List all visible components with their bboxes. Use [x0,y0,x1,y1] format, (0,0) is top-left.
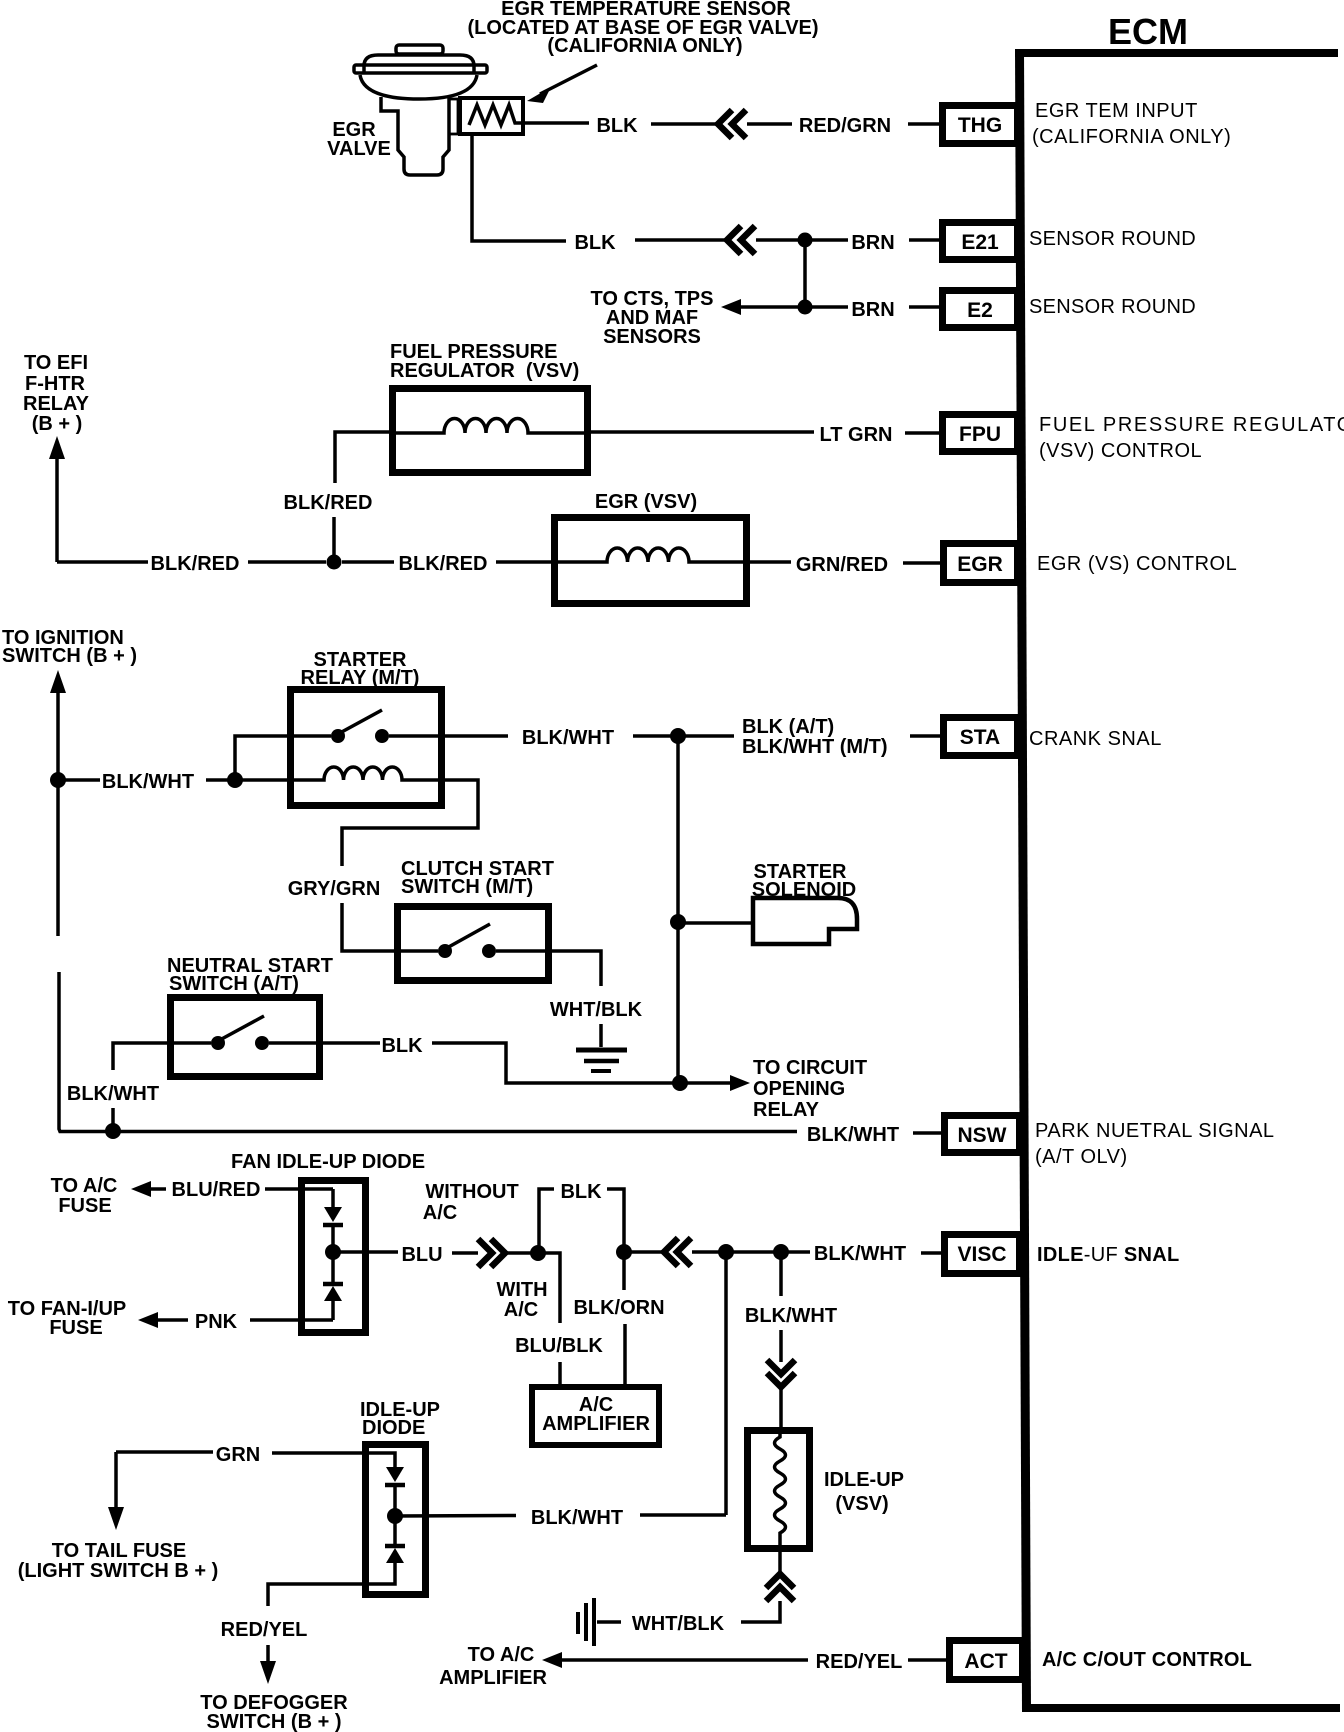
wire GRY/GRN down to clutch switch [342,903,397,951]
svg-text:BRN: BRN [851,232,894,254]
svg-text:FUSE: FUSE [58,1195,111,1217]
clutch start switch box [398,907,549,981]
wire BLK/WHT down to main run [111,1108,115,1128]
pin NSW [945,1116,1020,1153]
junction node STA [670,728,686,744]
svg-text:IDLE-UF SNAL: IDLE-UF SNAL [1037,1244,1180,1266]
starter solenoid body [753,898,857,944]
pin E2 [943,291,1018,328]
EGR valve body [381,97,449,175]
wire sensor to BLK label (row 1) [523,121,589,125]
wire BLK to connector (row 2) [635,238,727,242]
wire BLK/WHT to relay junction [206,778,228,782]
svg-text:BLK: BLK [596,115,638,137]
starter relay box [291,690,442,806]
wire GRN elbow [116,1450,213,1454]
svg-text:BLU: BLU [401,1244,442,1266]
svg-text:TO TAIL FUSE: TO TAIL FUSE [52,1540,186,1562]
svg-text:BLK/WHT: BLK/WHT [522,727,614,749]
bracket wire BLK right [607,1189,624,1246]
wire BLK jog down to circuit opening relay run [432,1043,675,1083]
svg-text:CRANK SNAL: CRANK SNAL [1029,728,1162,750]
svg-text:BLK (A/T): BLK (A/T) [742,716,834,738]
svg-text:(B + ): (B + ) [32,413,83,435]
svg-text:BLK/RED: BLK/RED [399,553,488,575]
svg-text:WITH: WITH [496,1279,547,1301]
wire chevrons into idle-up VSV [779,1388,783,1430]
svg-text:IDLE-UP: IDLE-UP [824,1469,904,1491]
wire junction down to BLU/BLK [538,1253,560,1323]
svg-text:WHT/BLK: WHT/BLK [550,999,643,1021]
junction node idle-up feed [718,1244,734,1260]
svg-text:TO EFI: TO EFI [24,352,88,374]
svg-text:RED/YEL: RED/YEL [221,1619,308,1641]
svg-text:BLK/RED: BLK/RED [284,492,373,514]
wire FPR right lead to LT GRN [591,430,814,434]
svg-text:BLK: BLK [574,232,616,254]
wire junction to left chevrons (VISC run) [624,1250,664,1254]
junction node idle-up VSV feed [773,1244,789,1260]
pin E21 [943,223,1018,260]
idle-up diode D1 (down) [386,1467,404,1482]
idle-up VSV coil squiggle [775,1431,786,1552]
wire BLK to connector (row 1) [651,122,718,126]
connector chevrons (with A/C, pointing right) [478,1239,505,1267]
wire from sensor bottom down to row 2 [472,134,566,241]
arrow to A/C fuse [131,1181,151,1197]
wire chevrons to junction [505,1251,532,1255]
svg-text:SWITCH (B + ): SWITCH (B + ) [207,1711,342,1732]
svg-text:F-HTR: F-HTR [25,373,86,395]
EGR valve flange [354,65,487,73]
svg-text:FAN IDLE-UP DIODE: FAN IDLE-UP DIODE [231,1151,425,1173]
svg-text:STA: STA [960,726,1000,749]
fan diode mid lead [331,1225,335,1283]
pointer arrow to EGR temperature sensor [540,65,597,94]
ground bars (VSV) [576,1612,580,1634]
wire BLU/RED into diode box [265,1187,333,1191]
wire to pin E21 [909,238,939,242]
EGR valve bowl [360,75,477,99]
connector chevrons (row 1) [718,110,746,138]
svg-text:BLK/WHT: BLK/WHT [102,771,194,793]
starter relay switch contacts [291,734,331,738]
clutch start switch contacts [397,949,438,953]
clutch start switch blade [445,924,490,949]
connector chevrons (row 2) [727,226,755,254]
arrow down to defogger switch [266,1645,270,1668]
wire to pin NSW [913,1131,941,1135]
junction node idle-up diode [387,1508,403,1524]
EGR valve dome [364,55,474,74]
bracket wire BLK left [539,1189,554,1247]
wire BLK/WHT down to chevrons [779,1330,783,1362]
wire to pin FPU [905,431,939,435]
svg-text:THG: THG [958,114,1002,137]
svg-text:A/C C/OUT CONTROL: A/C C/OUT CONTROL [1042,1649,1252,1671]
wire BLK/WHT to riser [640,1513,726,1517]
svg-text:SENSORS: SENSORS [603,326,701,348]
wire BLU to right chevrons [452,1251,478,1255]
svg-text:FUSE: FUSE [49,1317,102,1339]
svg-text:BLU/BLK: BLU/BLK [515,1335,603,1357]
fuel pressure regulator (VSV) box [393,389,588,473]
connector chevrons (VISC run, pointing left) [664,1238,691,1266]
wire fan diode out to PNK [250,1318,333,1322]
svg-text:BLU/RED: BLU/RED [172,1179,261,1201]
svg-text:RELAY: RELAY [23,393,90,415]
svg-text:BLK/ORN: BLK/ORN [573,1297,664,1319]
wire relay switch out to BLK/WHT [445,734,508,738]
arrow up to EFI F-HTR relay [49,436,65,459]
arrow to circuit opening relay [680,1081,732,1085]
svg-text:RED/YEL: RED/YEL [816,1651,903,1673]
pin STA [944,718,1018,756]
fuel pressure regulator coil [392,419,588,434]
wire label to ground symbol [599,1024,603,1047]
svg-text:BLK/WHT: BLK/WHT [745,1305,837,1327]
wire chevrons to junction [692,1250,721,1254]
EGR temperature sensor body [460,98,523,134]
wire to pin E2 [909,305,939,309]
wire BLK/RED to junction [248,560,326,564]
svg-text:TO CIRCUIT: TO CIRCUIT [753,1057,867,1079]
neutral start switch box [171,998,320,1077]
wire junction down [622,1252,626,1290]
junction node relay feed [227,772,243,788]
svg-text:E21: E21 [961,231,999,254]
left BLK/WHT vertical (lower) and NSW run [59,972,797,1132]
wire down to idle-up diode run [724,1252,728,1515]
starter relay coil [291,767,441,780]
wire junction to BRN (row 2) [805,238,848,242]
svg-text:BLK/WHT (M/T): BLK/WHT (M/T) [742,736,888,758]
fan diode D1 (down) [324,1207,342,1222]
wire junction to BLK/WHT label [58,778,100,782]
junction node BLK/RED [327,555,342,570]
svg-text:BLK/RED: BLK/RED [151,553,240,575]
pin ACT [950,1641,1023,1680]
wire to VSV junction [726,1250,776,1254]
svg-text:PARK NUETRAL SIGNAL: PARK NUETRAL SIGNAL [1035,1120,1275,1142]
pin VISC [945,1235,1020,1274]
wire BLK/RED label down to junction [332,517,336,562]
connector chevrons (up) [766,1574,794,1601]
wire to CTS/TPS/MAF arrow [739,305,805,309]
EGR (VSV) coil [554,548,744,562]
svg-text:(CALIFORNIA ONLY): (CALIFORNIA ONLY) [1032,126,1231,148]
idle-up diode box [366,1445,426,1595]
idle-up diode bottom lead out [268,1562,395,1606]
svg-text:(CALIFORNIA ONLY): (CALIFORNIA ONLY) [547,35,742,57]
pin THG [943,106,1018,144]
wire BLK/RED to EGR VSV box [496,560,554,564]
svg-text:SENSOR ROUND: SENSOR ROUND [1029,296,1196,318]
svg-text:EGR (VS) CONTROL: EGR (VS) CONTROL [1037,553,1237,575]
junction node row3 [798,300,813,315]
arrow to A/C amplifier (RED/YEL run) [542,1652,562,1668]
junction node BLK/ORN [616,1244,632,1260]
svg-text:TO A/C: TO A/C [51,1175,118,1197]
junction node fan diode [325,1244,341,1260]
wire FPR left lead [335,432,389,483]
ECM top edge [1015,49,1338,57]
svg-text:WHT/BLK: WHT/BLK [632,1613,725,1635]
junction node solenoid [670,914,686,930]
wire to pin STA [910,734,940,738]
wire junction into relay coil [235,778,291,782]
svg-text:BLK/WHT: BLK/WHT [531,1507,623,1529]
arrow down to tail fuse [114,1452,118,1510]
arrow to fan idle-up fuse [154,1318,188,1322]
wire fan diode to BLU [333,1250,398,1254]
wire BLU/BLK into A/C amplifier [558,1362,562,1387]
svg-text:(A/T OLV): (A/T OLV) [1035,1146,1128,1168]
svg-text:(LIGHT SWITCH B + ): (LIGHT SWITCH B + ) [18,1560,219,1582]
svg-text:WITHOUT: WITHOUT [425,1181,518,1203]
svg-text:SWITCH (B + ): SWITCH (B + ) [2,645,137,667]
EGR (VSV) box [555,518,747,604]
pin EGR [944,544,1018,583]
wire neutral switch out to BLK [323,1041,380,1045]
neutral start switch blade [218,1016,264,1041]
ground tick [597,1620,621,1624]
wire connector to RED/GRN (row 1) [747,122,792,126]
wire diode junction out right [395,1514,516,1518]
svg-text:NSW: NSW [958,1124,1007,1147]
svg-text:BLK/WHT: BLK/WHT [814,1243,906,1265]
svg-text:OPENING: OPENING [753,1078,845,1100]
wire chevrons down to WHT/BLK elbow [741,1601,780,1622]
starter relay switch blade [338,710,382,734]
junction node BLU [530,1245,546,1261]
fan diode internal top lead [331,1189,335,1211]
svg-text:LT GRN: LT GRN [820,424,893,446]
EGR temperature sensor thermistor zigzag [469,105,523,125]
junction node circuit opening [672,1075,688,1091]
wire relay coil out, down and left [342,780,478,866]
idle-up diode mid lead [393,1485,397,1545]
wire to pin THG [908,122,939,126]
A/C amplifier box [532,1387,659,1445]
connector chevrons (down) [767,1360,795,1387]
wire to pin VISC [921,1251,943,1255]
svg-text:VISC: VISC [957,1243,1006,1266]
svg-text:BLK/WHT: BLK/WHT [67,1083,159,1105]
svg-text:RELAY: RELAY [753,1099,820,1121]
svg-text:GRY/GRN: GRY/GRN [288,878,381,900]
ground symbol (clutch) [576,1048,627,1053]
junction node on NSW run [105,1123,121,1139]
svg-text:SENSOR ROUND: SENSOR ROUND [1029,228,1196,250]
wire to pin EGR [903,561,940,565]
svg-text:SWITCH (A/T): SWITCH (A/T) [169,973,299,995]
fan diode bottom lead [331,1301,335,1320]
ECM left edge (main vertical bus) [1015,49,1031,1712]
svg-text:VALVE: VALVE [327,138,391,160]
wire row to EGR VSV: left segment [57,560,148,564]
svg-text:FUEL PRESSURE REGULATOR: FUEL PRESSURE REGULATOR [1039,414,1344,436]
fan idle-up diode box [302,1181,366,1333]
left BLK/WHT vertical (upper) [56,689,60,936]
svg-text:DIODE: DIODE [362,1417,425,1439]
svg-text:REGULATOR (VSV): REGULATOR (VSV) [390,360,579,382]
svg-text:BLK/WHT: BLK/WHT [807,1124,899,1146]
svg-text:FPU: FPU [959,423,1001,446]
junction node row2 [798,233,813,248]
svg-text:TO A/C: TO A/C [468,1644,535,1666]
svg-text:BLK: BLK [560,1181,602,1203]
vertical bus from STA junction down [676,736,680,1083]
wire BLK/ORN into A/C amplifier [623,1324,627,1387]
wire VSV bottom to chevrons [778,1552,782,1572]
wire junction to BRN (row 3) [805,305,848,309]
idle-up diode D2 (up) [385,1544,405,1549]
EGR valve cap [396,45,443,54]
svg-text:AMPLIFIER: AMPLIFIER [439,1667,547,1689]
wire to pin ACT [908,1658,946,1662]
svg-text:EGR: EGR [957,553,1003,576]
svg-text:SWITCH (M/T): SWITCH (M/T) [401,876,533,898]
wire connector to junction (row 2) [756,238,805,242]
EGR temperature sensor mount strip [449,99,458,134]
neutral start switch contacts [170,1041,211,1045]
svg-text:A/C: A/C [504,1299,538,1321]
svg-text:PNK: PNK [195,1311,238,1333]
wire GRN into idle-up diode [272,1453,395,1471]
fan diode D2 (up) [323,1282,343,1287]
svg-text:ECM: ECM [1108,11,1188,52]
pin FPU [943,415,1018,452]
branch up to relay switch row [235,736,291,780]
svg-text:(VSV): (VSV) [835,1493,888,1515]
junction node at ignition feed [50,772,66,788]
svg-text:(VSV) CONTROL: (VSV) CONTROL [1039,440,1202,462]
wire junction to BLK/RED (right) [342,560,394,564]
arrow up to ignition switch [50,670,66,693]
svg-text:A/C: A/C [423,1202,457,1224]
neutral start switch left lead [113,1043,167,1070]
wire junction to starter solenoid [678,921,753,925]
svg-text:BLK: BLK [381,1035,423,1057]
wire clutch switch to ground [552,951,601,986]
vertical wire between BRN junctions [803,240,807,307]
svg-text:BRN: BRN [851,299,894,321]
svg-text:RED/GRN: RED/GRN [799,115,891,137]
wire junction to BLK/WHT label (VISC) [781,1250,810,1254]
idle-up VSV box [748,1431,810,1549]
svg-text:RELAY (M/T): RELAY (M/T) [301,667,420,689]
ECM bottom edge [1024,1704,1340,1712]
svg-text:ACT: ACT [964,1650,1007,1673]
wire BLK/WHT to STA junction [633,734,672,738]
svg-text:GRN: GRN [216,1444,260,1466]
svg-text:EGR (VSV): EGR (VSV) [595,491,697,513]
svg-text:GRN/RED: GRN/RED [796,554,888,576]
wire EGR VSV to GRN/RED [747,560,791,564]
wire junction toward STA pin [678,734,734,738]
svg-text:E2: E2 [967,299,993,322]
svg-text:AMPLIFIER: AMPLIFIER [542,1413,650,1435]
wire VSV junction down [779,1252,783,1296]
svg-text:EGR TEM INPUT: EGR TEM INPUT [1035,100,1198,122]
